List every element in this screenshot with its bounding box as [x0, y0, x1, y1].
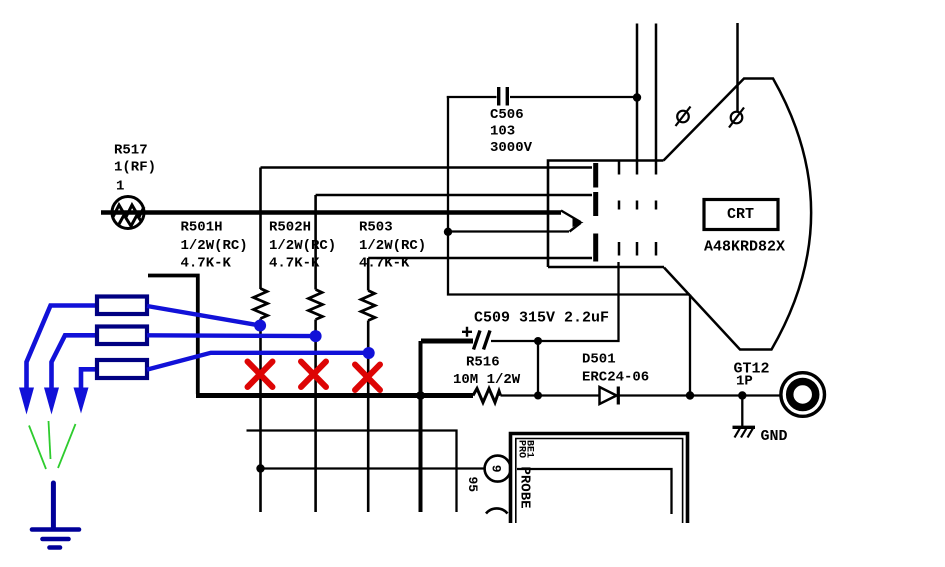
blue lead 3 to node [147, 353, 369, 370]
wire vertical x=737.5 (to NC pin) [736, 23, 739, 112]
svg-text:1/2W(RC): 1/2W(RC) [181, 238, 248, 254]
CRT grid dashes column x=637 [636, 201, 639, 256]
svg-text:4.7K-K: 4.7K-K [181, 256, 232, 272]
svg-text:ERC24-06: ERC24-06 [582, 370, 649, 386]
wire vertical x=448 from C506 wire to dot [447, 96, 449, 232]
svg-text:R501H: R501H [181, 220, 223, 236]
svg-text:1/2W(RC): 1/2W(RC) [269, 238, 336, 254]
connector GT12 label [734, 361, 770, 390]
svg-text:C509 315V 2.2uF: C509 315V 2.2uF [474, 310, 609, 327]
svg-text:GND: GND [761, 428, 788, 445]
svg-text:1P: 1P [736, 374, 753, 390]
svg-text:R517: R517 [114, 143, 148, 159]
probe box inner rectangle [517, 469, 672, 514]
NC pin symbol 1 [676, 107, 691, 127]
capacitor C509 plates [474, 331, 491, 350]
blue lead 1 to node [147, 306, 260, 326]
svg-text:BE1: BE1 [524, 440, 535, 458]
wire R516 to D501 [501, 394, 600, 396]
wire from dot down then right to funnel (y=294.5) [448, 232, 690, 295]
cathode arrow tip [561, 211, 584, 232]
svg-text:4.7K-K: 4.7K-K [269, 256, 320, 272]
PRO BE1 rotated label [516, 440, 535, 458]
connector GT12 [781, 373, 825, 417]
blue node dot 2 [310, 330, 322, 342]
wire (cathode heater line) [101, 210, 561, 215]
wire horizontal y=430.5 [247, 431, 457, 513]
svg-text:A48KRD82X: A48KRD82X [704, 239, 785, 256]
wire R503 column [367, 258, 370, 291]
wire GND stem [741, 396, 743, 427]
svg-text:4.7K-K: 4.7K-K [359, 256, 410, 272]
CRT electrode bar 1 [593, 163, 598, 188]
NC pin symbol 2 [729, 108, 744, 128]
svg-text:3000V: 3000V [490, 140, 533, 156]
red X mark 1 [248, 362, 273, 388]
svg-text:1/2W(RC): 1/2W(RC) [359, 238, 426, 254]
capacitor C506 [499, 87, 508, 106]
svg-text:D501: D501 [582, 352, 616, 368]
blue arrow 2 [44, 388, 59, 415]
CRT grid dashes column x=619 [618, 161, 621, 256]
green beam line 2 [49, 421, 51, 459]
node 9 circle [485, 456, 511, 482]
resistor R502H label [269, 220, 336, 272]
blue probe lead 1 (left) [27, 306, 98, 393]
red X mark 3 [355, 365, 380, 391]
svg-text:CRT: CRT [727, 206, 754, 223]
node dot at (637,97) [633, 93, 641, 101]
wire (cathode return, y=231.5) [448, 230, 569, 232]
wire thick x=420.5 vertical [419, 341, 423, 512]
green beam line 3 [58, 424, 76, 468]
blue arrow 1 [19, 388, 34, 415]
probe box outer border [511, 434, 688, 524]
resistor R517 label [114, 143, 156, 195]
node dot at (538,341) [534, 337, 542, 345]
frame corner top-left [148, 276, 198, 395]
wire x=538 vertical [537, 341, 539, 396]
capacitor C506 label [490, 107, 533, 156]
wire R501 column below [259, 319, 262, 513]
C509 plus sign [462, 327, 472, 337]
wire horizontal y=468.5 [261, 467, 485, 469]
wire R501 column [259, 168, 262, 290]
blue resistor box 2 [97, 327, 147, 345]
blue probe lead 2 (left) [52, 335, 98, 392]
ground GND [733, 427, 756, 438]
CRT grid dashes column x=656 [655, 201, 658, 256]
CRT label box [704, 200, 778, 230]
CRT electrode bar 3 [593, 234, 598, 262]
blue arrow 3 [74, 388, 89, 414]
resistor R502H [309, 290, 323, 320]
wire grid2 (y=195) [316, 194, 592, 197]
CRT electrode bar 2 [593, 192, 598, 216]
probe box inner border [516, 439, 683, 524]
wire grid3 (y=258) [368, 257, 592, 260]
wire grid1 (y=167.5) [261, 166, 593, 169]
wire thick to C509 [421, 339, 473, 344]
wire C506 top (y=97) [447, 96, 497, 98]
red X mark 2 [301, 362, 326, 388]
svg-text:R502H: R502H [269, 220, 311, 236]
wire x=619 from neck to C509 [491, 262, 619, 341]
svg-text:103: 103 [490, 124, 515, 140]
wire D501 to GT12 [618, 394, 780, 396]
blue node dot 1 [254, 320, 266, 332]
partial circle bottom [486, 508, 508, 513]
node dot at (538,395.5) [534, 392, 542, 400]
CRT funnel outline [664, 79, 812, 350]
blue ground symbol [32, 483, 79, 548]
blue resistor box 1 [97, 297, 147, 315]
wire R503 column below [367, 321, 370, 513]
svg-text:1(RF): 1(RF) [114, 160, 156, 176]
svg-text:C506: C506 [490, 107, 524, 123]
wire vertical x=690 funnel to diode node [689, 295, 691, 396]
blue node dot 3 [363, 347, 375, 359]
svg-text:9: 9 [489, 465, 504, 473]
diode D501 label [582, 352, 649, 386]
node dot at (420.5,395.5) [416, 391, 425, 400]
blue lead 2 to node [147, 333, 316, 338]
node dot at (690,395.5) [686, 391, 694, 399]
resistor R501H [254, 289, 268, 319]
diode D501 [600, 387, 619, 405]
resistor R503 [361, 291, 375, 321]
wire vertical x=637 (CRT grid feed) [636, 24, 639, 175]
blue probe lead 3 (left) [81, 369, 97, 392]
svg-text:10M 1/2W: 10M 1/2W [453, 372, 521, 388]
resistor R517 [112, 197, 144, 229]
node dot at (742.3,395.5) [738, 391, 746, 399]
wire vertical x=656 (CRT grid feed) [655, 24, 658, 175]
resistor R516 [473, 389, 501, 403]
blue resistor box 3 [97, 360, 147, 378]
svg-text:PROBE: PROBE [517, 467, 533, 509]
svg-text:1: 1 [116, 179, 124, 195]
wire R502 column below [314, 320, 317, 513]
green beam line 1 [29, 426, 46, 470]
wire R502 column [314, 195, 317, 290]
svg-text:R503: R503 [359, 220, 393, 236]
wire thick bus (y=395.5) [196, 393, 473, 398]
resistor R516 label [453, 355, 521, 389]
resistor R501H label [181, 220, 248, 272]
svg-text:95: 95 [465, 477, 480, 493]
node dot at (448,231.5) [444, 228, 452, 236]
node dot at (260.5,468.5) [256, 464, 264, 472]
svg-text:R516: R516 [466, 355, 500, 371]
CRT neck box [548, 161, 664, 268]
resistor R503 label [359, 220, 426, 272]
